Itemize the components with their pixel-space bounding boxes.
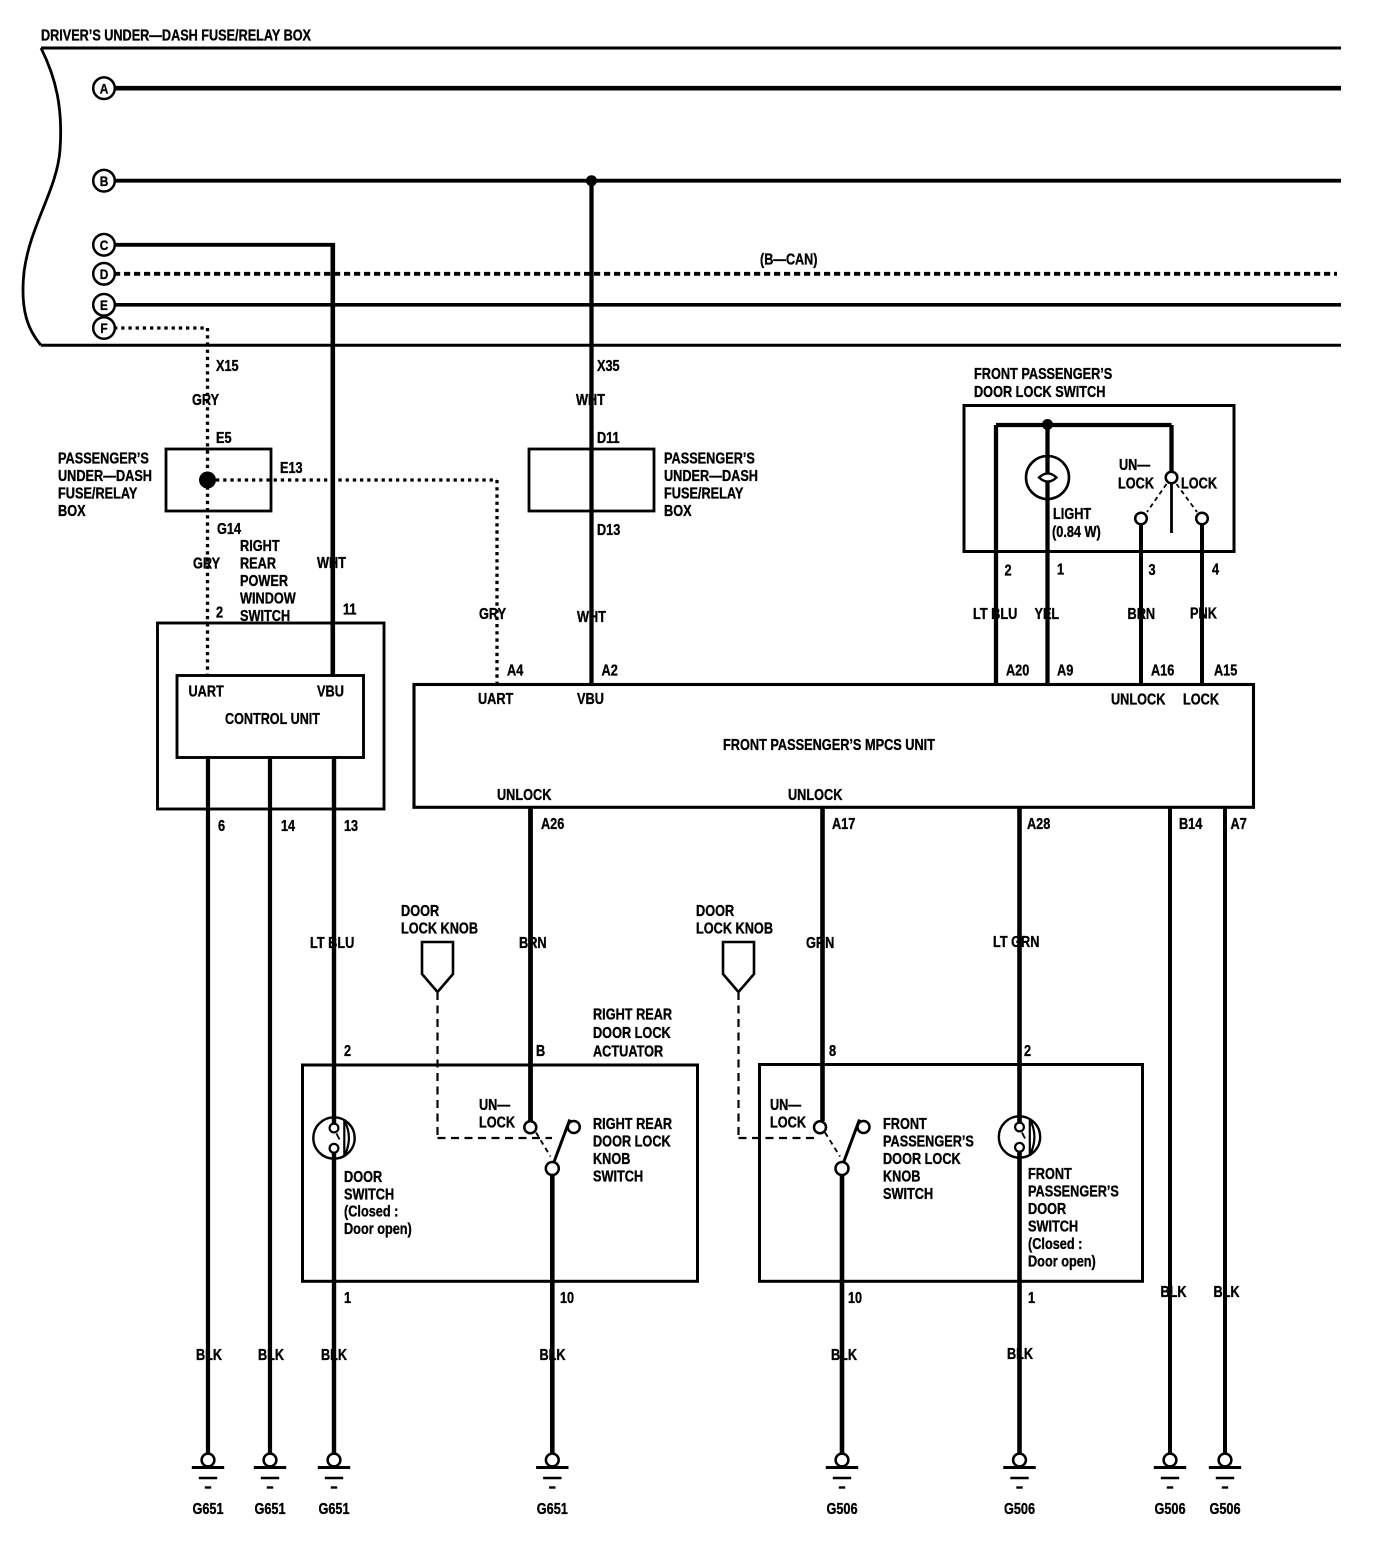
svg-text:RIGHT REAR: RIGHT REAR — [593, 1116, 673, 1133]
svg-text:PASSENGER’S: PASSENGER’S — [664, 451, 755, 468]
svg-text:X15: X15 — [216, 358, 239, 375]
svg-text:LOCK: LOCK — [770, 1115, 806, 1132]
svg-text:LOCK: LOCK — [1181, 476, 1217, 493]
svg-text:FUSE/RELAY: FUSE/RELAY — [58, 486, 138, 503]
svg-text:2: 2 — [1005, 563, 1012, 580]
svg-text:DRIVER’S UNDER—DASH FUSE/RELAY: DRIVER’S UNDER—DASH FUSE/RELAY BOX — [41, 28, 311, 45]
svg-text:REAR: REAR — [240, 556, 276, 573]
svg-text:A26: A26 — [541, 816, 564, 833]
svg-text:1: 1 — [1028, 1290, 1035, 1307]
svg-text:PNK: PNK — [1190, 606, 1217, 623]
svg-text:BLK: BLK — [539, 1347, 566, 1364]
svg-text:DOOR: DOOR — [344, 1169, 383, 1186]
svg-text:2: 2 — [344, 1043, 351, 1060]
svg-text:LT GRN: LT GRN — [993, 934, 1039, 951]
svg-text:GRY: GRY — [479, 606, 506, 623]
svg-text:X35: X35 — [597, 358, 620, 375]
svg-text:G506: G506 — [1209, 1501, 1240, 1518]
svg-text:POWER: POWER — [240, 573, 288, 590]
svg-text:WHT: WHT — [576, 392, 605, 409]
svg-text:VBU: VBU — [317, 684, 344, 701]
svg-text:UNLOCK: UNLOCK — [1111, 692, 1166, 709]
svg-text:RIGHT REAR: RIGHT REAR — [593, 1007, 673, 1024]
svg-text:3: 3 — [1149, 562, 1156, 579]
svg-text:BRN: BRN — [1128, 606, 1156, 623]
svg-text:BLK: BLK — [196, 1347, 223, 1364]
svg-text:FRONT PASSENGER’S MPCS UNIT: FRONT PASSENGER’S MPCS UNIT — [723, 737, 935, 754]
svg-text:8: 8 — [829, 1043, 836, 1060]
svg-text:A2: A2 — [602, 663, 618, 680]
svg-text:G651: G651 — [318, 1501, 349, 1518]
svg-text:2: 2 — [216, 605, 223, 622]
svg-text:10: 10 — [560, 1290, 574, 1307]
svg-text:Door open): Door open) — [1028, 1254, 1096, 1271]
svg-text:LOCK: LOCK — [1118, 476, 1154, 493]
svg-text:BLK: BLK — [1160, 1284, 1187, 1301]
svg-text:DOOR LOCK: DOOR LOCK — [593, 1134, 671, 1151]
svg-text:E5: E5 — [216, 430, 232, 447]
svg-text:1: 1 — [1057, 562, 1064, 579]
svg-text:BLK: BLK — [831, 1347, 858, 1364]
svg-text:YEL: YEL — [1035, 606, 1060, 623]
svg-text:D: D — [100, 266, 109, 282]
svg-text:GRY: GRY — [192, 392, 219, 409]
svg-text:A20: A20 — [1006, 663, 1029, 680]
svg-text:A: A — [100, 80, 109, 96]
svg-text:Door open): Door open) — [344, 1221, 412, 1238]
svg-text:(Closed :: (Closed : — [344, 1204, 398, 1221]
svg-text:FRONT: FRONT — [883, 1116, 927, 1133]
svg-text:G506: G506 — [1004, 1501, 1035, 1518]
svg-text:B14: B14 — [1179, 816, 1202, 833]
svg-text:VBU: VBU — [577, 691, 604, 708]
svg-text:ACTUATOR: ACTUATOR — [593, 1044, 664, 1061]
svg-text:WHT: WHT — [577, 609, 606, 626]
svg-text:UNLOCK: UNLOCK — [497, 787, 552, 804]
svg-text:A16: A16 — [1151, 663, 1174, 680]
svg-text:2: 2 — [1024, 1043, 1031, 1060]
svg-text:UART: UART — [189, 684, 225, 701]
svg-text:LOCK: LOCK — [479, 1115, 515, 1132]
svg-text:PASSENGER’S: PASSENGER’S — [883, 1134, 974, 1151]
svg-text:F: F — [100, 320, 108, 336]
svg-text:(Closed :: (Closed : — [1028, 1236, 1082, 1253]
svg-text:G506: G506 — [1154, 1501, 1185, 1518]
svg-text:SWITCH: SWITCH — [1028, 1219, 1078, 1236]
svg-text:LOCK: LOCK — [1183, 692, 1219, 709]
svg-text:A7: A7 — [1231, 816, 1247, 833]
svg-text:LIGHT: LIGHT — [1053, 506, 1091, 523]
svg-text:BLK: BLK — [1213, 1284, 1240, 1301]
svg-text:FRONT: FRONT — [1028, 1166, 1072, 1183]
svg-text:PASSENGER’S: PASSENGER’S — [1028, 1184, 1119, 1201]
svg-text:G506: G506 — [826, 1501, 857, 1518]
svg-text:13: 13 — [344, 818, 358, 835]
svg-text:UNDER—DASH: UNDER—DASH — [664, 468, 758, 485]
svg-text:BLK: BLK — [258, 1347, 285, 1364]
svg-text:14: 14 — [281, 818, 295, 835]
svg-text:A17: A17 — [832, 816, 855, 833]
svg-text:GRY: GRY — [193, 556, 220, 573]
svg-text:WINDOW: WINDOW — [240, 591, 296, 608]
svg-text:LOCK KNOB: LOCK KNOB — [696, 921, 773, 938]
svg-text:FRONT PASSENGER’S: FRONT PASSENGER’S — [974, 366, 1112, 383]
svg-text:BLK: BLK — [1007, 1346, 1034, 1363]
svg-text:SWITCH: SWITCH — [344, 1186, 394, 1203]
svg-text:DOOR LOCK: DOOR LOCK — [593, 1025, 671, 1042]
svg-text:B: B — [536, 1043, 545, 1060]
svg-text:E13: E13 — [280, 460, 303, 477]
svg-text:DOOR: DOOR — [1028, 1201, 1067, 1218]
svg-text:G14: G14 — [217, 521, 241, 538]
svg-text:G651: G651 — [254, 1501, 285, 1518]
svg-text:UNLOCK: UNLOCK — [788, 787, 843, 804]
svg-text:LOCK KNOB: LOCK KNOB — [401, 921, 478, 938]
svg-text:PASSENGER’S: PASSENGER’S — [58, 451, 149, 468]
svg-text:A4: A4 — [507, 663, 523, 680]
svg-text:B: B — [100, 173, 109, 189]
svg-text:UN—: UN— — [1119, 457, 1150, 474]
svg-text:G651: G651 — [537, 1501, 568, 1518]
svg-text:6: 6 — [218, 818, 225, 835]
svg-text:UN—: UN— — [479, 1097, 510, 1114]
svg-text:DOOR: DOOR — [696, 903, 735, 920]
svg-text:SWITCH: SWITCH — [883, 1186, 933, 1203]
svg-text:D13: D13 — [597, 522, 620, 539]
svg-text:A15: A15 — [1214, 663, 1237, 680]
svg-text:G651: G651 — [192, 1501, 223, 1518]
svg-text:10: 10 — [848, 1290, 862, 1307]
svg-text:KNOB: KNOB — [593, 1151, 630, 1168]
svg-text:CONTROL UNIT: CONTROL UNIT — [225, 711, 320, 728]
svg-text:GRN: GRN — [806, 935, 834, 952]
svg-text:A28: A28 — [1027, 816, 1050, 833]
svg-text:UN—: UN— — [770, 1097, 801, 1114]
svg-text:(B—CAN): (B—CAN) — [760, 252, 818, 269]
svg-text:C: C — [100, 237, 109, 253]
svg-text:D11: D11 — [597, 430, 620, 447]
svg-text:UART: UART — [478, 691, 514, 708]
svg-text:4: 4 — [1212, 562, 1219, 579]
svg-text:FUSE/RELAY: FUSE/RELAY — [664, 486, 744, 503]
svg-text:KNOB: KNOB — [883, 1169, 920, 1186]
svg-text:BLK: BLK — [321, 1347, 348, 1364]
svg-text:SWITCH: SWITCH — [593, 1169, 643, 1186]
svg-text:LT BLU: LT BLU — [973, 606, 1017, 623]
svg-text:WHT: WHT — [317, 555, 346, 572]
svg-text:A9: A9 — [1057, 663, 1073, 680]
svg-text:BOX: BOX — [58, 503, 86, 520]
svg-text:UNDER—DASH: UNDER—DASH — [58, 468, 152, 485]
svg-text:(0.84 W): (0.84 W) — [1052, 524, 1101, 541]
svg-text:BRN: BRN — [519, 935, 547, 952]
svg-text:RIGHT: RIGHT — [240, 538, 280, 555]
svg-text:DOOR LOCK: DOOR LOCK — [883, 1151, 961, 1168]
svg-text:BOX: BOX — [664, 503, 692, 520]
svg-text:1: 1 — [344, 1290, 351, 1307]
svg-text:LT BLU: LT BLU — [310, 935, 354, 952]
svg-text:E: E — [100, 297, 108, 313]
svg-text:11: 11 — [343, 602, 357, 619]
svg-text:DOOR: DOOR — [401, 903, 440, 920]
svg-text:DOOR LOCK SWITCH: DOOR LOCK SWITCH — [974, 384, 1105, 401]
